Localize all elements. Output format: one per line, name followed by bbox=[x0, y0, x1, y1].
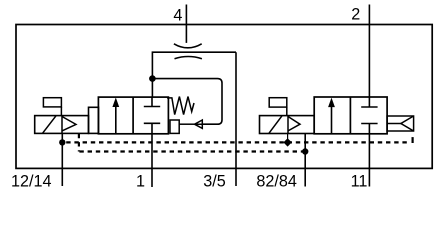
V2 pilot-return triangle bbox=[401, 116, 414, 131]
port 3/5 wire bbox=[235, 52, 237, 186]
V1 manual override stem bbox=[60, 107, 62, 116]
V2 manual override box bbox=[269, 98, 287, 107]
pilot dashed tick up to V2 pilot-return box bbox=[412, 137, 414, 143]
node C diamond junction bbox=[283, 138, 291, 146]
port 12/14 wire bbox=[61, 133, 63, 186]
V1 pilot-return connector line bbox=[179, 123, 194, 125]
V1 pilot triangle bbox=[62, 117, 76, 131]
V1 pilot-return triangle bbox=[195, 120, 203, 128]
V2 square divider bbox=[349, 97, 351, 134]
svg-text:1: 1 bbox=[136, 173, 145, 191]
V2 pilot-return box bbox=[387, 116, 414, 131]
V1 square divider bbox=[132, 97, 134, 134]
V2 blocked port T bottom bbox=[361, 124, 377, 134]
port 2 wire bbox=[368, 5, 370, 98]
V1 solenoid actuator block bbox=[35, 116, 89, 134]
node C stem bbox=[287, 134, 289, 139]
V2 pilot-return connector line bbox=[387, 123, 401, 125]
pilot dashed line from node B to V2 pilot-return bbox=[66, 141, 409, 143]
V1 adapter narrow box bbox=[89, 107, 99, 133]
node A junction dot bbox=[149, 75, 156, 82]
frame border bbox=[16, 25, 432, 169]
valve V1 body squares bbox=[98, 97, 168, 134]
V1 actuator divider bbox=[61, 116, 63, 134]
port 11 wire bbox=[368, 134, 370, 187]
node B junction dot bbox=[59, 139, 65, 145]
svg-text:11: 11 bbox=[351, 173, 368, 191]
pilot dashed line from port 82/84 node to V1 pilot drop bbox=[79, 150, 305, 152]
V1 return spring bbox=[167, 97, 194, 115]
svg-text:2: 2 bbox=[351, 6, 360, 24]
pilot dashed drop from V1 pilot triangle bbox=[78, 134, 80, 152]
svg-text:4: 4 bbox=[173, 6, 182, 24]
V2 pilot triangle bbox=[288, 117, 300, 131]
V1 pilot-return box bbox=[170, 120, 179, 133]
wire node A down to valve V1 port 4 bbox=[151, 79, 153, 97]
V1 flow arrow bbox=[115, 104, 117, 133]
port 4 wire bbox=[185, 5, 187, 43]
valve V2 body squares bbox=[314, 97, 387, 134]
nozzle restrictor upper arc bbox=[174, 44, 202, 48]
nozzle restrictor lower arc bbox=[175, 57, 202, 59]
V2 solenoid actuator block bbox=[260, 116, 315, 134]
V1 blocked port T top bbox=[144, 97, 160, 107]
V1 manual override box bbox=[43, 98, 61, 107]
V1 solenoid diagonal bbox=[43, 116, 56, 133]
svg-text:82/84: 82/84 bbox=[256, 173, 297, 191]
V2 flow arrow bbox=[331, 104, 333, 134]
node D junction dot bbox=[302, 148, 308, 154]
V1 blocked port T bottom bbox=[144, 123, 160, 133]
svg-text:3/5: 3/5 bbox=[203, 173, 226, 191]
pilot wire node A to V1 pilot-return bbox=[152, 79, 222, 125]
port 1 wire bbox=[151, 133, 153, 187]
wire from node A up and across restrictor to port 3/5 drop bbox=[152, 52, 236, 78]
V2 actuator divider bbox=[287, 116, 289, 134]
V2 solenoid diagonal bbox=[269, 116, 282, 133]
V2 blocked port T top bbox=[361, 97, 377, 107]
V2 manual override stem bbox=[286, 107, 288, 115]
port 82/84 wire bbox=[304, 134, 306, 187]
svg-text:12/14: 12/14 bbox=[11, 173, 52, 191]
